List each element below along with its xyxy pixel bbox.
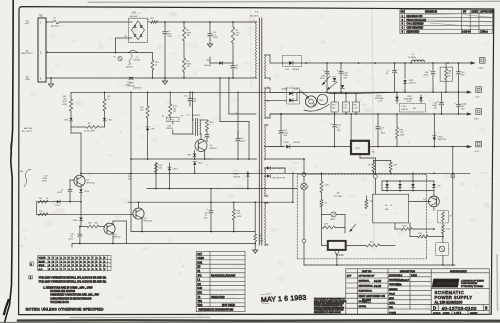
scan band bottom [18,319,500,322]
diode CR12 [57,200,60,203]
terminal -12V [467,145,472,148]
svg-text:A-C: A-C [39,268,43,271]
resistor R22 [321,192,323,199]
ground at TB1 [50,78,52,84]
terminal +12V [467,91,472,94]
svg-text:1W: 1W [187,66,190,68]
svg-text:20-301A: 20-301A [408,56,416,59]
capacitor C1 [164,22,166,31]
svg-text:+40V: +40V [478,68,484,70]
wire drive node A [219,78,221,122]
svg-text:C4-1 REVISED: C4-1 REVISED [407,23,424,26]
svg-text:VOLTAGE IS DC: VOLTAGE IS DC [50,301,69,304]
vertical x304 node [303,159,305,173]
svg-text:MATERIAL: MATERIAL [359,280,371,283]
svg-text:FOR 240V OPERATION INSTALL: FOR 240V OPERATION INSTALL JP1 ACROSS E5… [39,277,107,280]
svg-text:1N4934: 1N4934 [293,142,301,144]
svg-text:CR2: CR2 [206,60,211,62]
node wire 201.7 [37,201,82,203]
svg-text:5W: 5W [448,76,451,78]
svg-text:SHEET: SHEET [470,313,478,315]
reference designations table [196,251,245,311]
zener CR12 [333,78,336,81]
capacitor C14B [458,63,460,71]
wire Q6 collector top [433,195,435,198]
svg-text:VR2: VR2 [197,304,202,307]
diode CR14 [247,172,249,174]
rail 188.6 [147,188,297,190]
resistor R31 [373,161,375,163]
bottom rail 265 [304,264,455,266]
diode CR8 [194,151,196,153]
connector TB1 [38,18,46,82]
svg-text:CR26: CR26 [197,257,204,260]
capacitor C14A [457,103,461,105]
svg-text:D: D [433,306,436,311]
svg-text:REFERENCE DESIGNATIONS: REFERENCE DESIGNATIONS [199,309,234,312]
radio shack logo [432,279,484,288]
svg-text:6-1-83: 6-1-83 [374,285,382,288]
T1 primary winding [255,22,258,78]
svg-text:+160V: +160V [128,83,135,85]
capacitor C17 [377,114,379,126]
terminal E5 [374,175,378,179]
capacitor C3 [209,22,211,33]
svg-text:VOLTS: VOLTS [39,258,47,260]
svg-text:AND THE: AND THE [24,127,33,130]
svg-text:R5A WAS 470: R5A WAS 470 [407,15,423,18]
capacitor C5A [326,63,328,71]
svg-text:2W: 2W [236,35,239,37]
diode CR16 [286,145,290,149]
svg-text:NOT USED: NOT USED [222,304,235,307]
svg-text:C2: C2 [327,74,329,76]
svg-text:CR12: CR12 [55,205,61,207]
svg-text:TB1: TB1 [197,300,202,303]
svg-text:1 OF 1: 1 OF 1 [454,312,462,315]
svg-text:NO: NO [401,11,405,14]
svg-text:FOR 120V OPERATION INSTALL: FOR 120V OPERATION INSTALL JP1 ACROSS E5… [39,280,107,283]
svg-text:1W: 1W [187,35,190,37]
svg-text:2N6594: 2N6594 [210,148,218,150]
svg-text:JP2-5: JP2-5 [39,265,45,267]
sense squiggle left [24,170,31,188]
svg-text:(2000V): (2000V) [134,59,141,61]
capacitor C5C [432,63,434,71]
terminal E7 [335,250,339,254]
note 2 text [30,277,107,284]
terminal RET [467,112,472,115]
revision table [400,9,493,33]
svg-text:600V: 600V [69,239,74,241]
svg-text:CR5B: CR5B [293,89,299,91]
resistor R34 [321,215,323,228]
svg-text:1. RESISTORS ARE IN OHMS: 1. RESISTORS ARE IN OHMS , ±5% , 1/4W [43,286,93,289]
svg-text:AC: AC [26,20,29,23]
svg-text:CORPORATION: CORPORATION [461,282,478,285]
fuse F1 [46,21,53,23]
diode CR26 [265,175,268,177]
dashed select box [399,103,425,112]
transistor Q1 [74,175,85,186]
capacitor C10 [79,227,81,234]
svg-text:R9,R10,R21,R29,R36: R9,R10,R21,R29,R36 [211,274,236,277]
svg-text:CR17: CR17 [198,163,204,165]
resistor R5A boxed [440,67,452,81]
resistor R39 [442,223,444,225]
T1 tap wires [265,54,271,56]
svg-text:1W: 1W [173,111,176,113]
zener CR27 [419,97,422,100]
svg-text:6.8K: 6.8K [324,223,329,225]
svg-text:RT-1400: RT-1400 [334,196,343,198]
svg-text:DESIGN: DESIGN [389,289,398,291]
svg-text:1.4V: 1.4V [378,101,383,103]
capacitor C16 [440,101,444,103]
capacitor C9 [69,180,71,189]
transistor Q4 [104,223,115,234]
vertical bus x131 [130,92,132,231]
terminal E8 [302,239,306,243]
svg-text:CR10: CR10 [84,191,90,193]
svg-text:1W: 1W [128,179,131,181]
svg-text:40-13703-0100: 40-13703-0100 [442,306,477,311]
mounting arrows [322,76,330,85]
svg-text:6A 125V: 6A 125V [51,25,59,28]
resistor R14 [206,120,209,131]
svg-text:C10: C10 [184,96,187,98]
svg-text:PROD RELEASE: PROD RELEASE [407,19,427,22]
svg-text:GND: GND [25,79,30,81]
regulator VR1 [305,96,316,107]
svg-text:2000VDC: 2000VDC [133,87,142,89]
svg-text:BY: BY [463,11,467,14]
vertical x292.9 [292,173,294,202]
capacitor C12 [210,202,212,210]
date stamp MAY 16 1983 [261,292,307,304]
diode row CR19 CR20 CR21 [382,180,434,182]
wire rail to T1 [158,21,257,23]
diode CR25 [265,167,268,169]
jumper JP1 [167,117,180,122]
ground R30 [253,249,258,251]
resistor R9 [38,213,48,216]
svg-text:MFG: MFG [389,298,394,300]
svg-text:(2000V): (2000V) [126,66,133,68]
svg-text:DESCRIPTION: DESCRIPTION [400,271,415,273]
svg-text:+12V: +12V [474,97,480,99]
vertical x452.8 [452,147,454,265]
rail 63 top secondary [302,62,471,64]
trimpot R35 ADJ [322,214,331,216]
diode CR13 [169,172,171,174]
scan edge left [5,0,14,323]
svg-text:PROJ: PROJ [389,293,395,295]
svg-text:100: 100 [461,75,464,77]
resistor R16 [155,163,157,174]
diode CR3 [70,111,72,117]
svg-text:250VDC: 250VDC [128,85,136,87]
rail 202.2 [128,201,293,203]
node wire 214.3 [36,202,38,215]
svg-text:CAPACITANCES IN MICROFARAD: CAPACITANCES IN MICROFARADS [50,297,92,300]
terminal E6 [451,174,455,178]
diode CR22 [433,181,435,184]
capacitor C5B [340,63,342,71]
resistor R6 [70,92,72,99]
svg-text:1N5248: 1N5248 [204,65,212,67]
svg-text:NEUT/HOT: NEUT/HOT [22,53,34,55]
resistor R7 [70,121,72,127]
svg-text:1/2W: 1/2W [237,216,242,218]
svg-text:APPROVED: APPROVED [480,11,494,14]
svg-text:C5A: C5A [425,71,430,74]
capacitor C8 [237,131,239,138]
svg-text:REISSUED: REISSUED [407,31,420,34]
rail 159 [131,158,257,160]
svg-text:CR5 REVISED: CR5 REVISED [407,27,424,30]
diode CR7 [147,118,149,126]
power resistor box R33 [373,194,409,223]
thermal switch S1 [129,50,138,52]
svg-text:C-R27: C-R27 [401,106,406,108]
svg-text:DS1: DS1 [197,261,202,264]
svg-text:52-2108: 52-2108 [362,299,371,302]
svg-text:CR15,CR23: CR15,CR23 [211,296,225,299]
svg-text:R.Mc: R.Mc [396,283,402,286]
svg-text:NEXT ASSY: NEXT ASSY [359,294,374,298]
note 1 text [43,286,99,304]
svg-text:C14A: C14A [461,103,466,106]
resistor R2 [183,41,185,58]
wire Q6 base [409,200,431,202]
wire pin1 to bridge [59,21,129,23]
svg-text:1.4V: 1.4V [407,101,412,103]
svg-text:10: 10 [155,65,157,67]
boxed labels R13 C14 R15 [334,93,336,102]
svg-text:HOT: HOT [25,23,30,25]
heatsink assembly dashed box [297,174,427,259]
svg-text:C17: C17 [197,253,202,256]
svg-text:SEL: SEL [20,171,24,173]
svg-text:43.2K 1/2W: 43.2K 1/2W [84,131,95,133]
svg-text:1/4W: 1/4W [259,240,264,242]
terminal E1 [118,57,122,61]
zener CR13A [341,85,344,88]
terminal E4 [302,173,306,177]
resistor R10 [152,53,154,60]
svg-text:AC: AC [26,50,29,53]
svg-text:BD- -CNOT: BD- -CNOT [22,131,33,133]
diode CR10 [80,186,82,189]
svg-text:1/2W: 1/2W [400,135,405,137]
lamp DS1 [303,176,305,183]
resistor R11 [147,92,149,106]
svg-text:F 1055: F 1055 [389,312,397,314]
svg-text:J.West: J.West [480,31,488,34]
title block [346,269,489,315]
svg-text:6.8K: 6.8K [402,226,407,228]
svg-text:MECHANICAL: MECHANICAL [359,285,374,288]
diode CR24 [433,114,435,135]
rail 114 [270,113,330,115]
transistor Q6 [429,196,440,207]
svg-text:CR15: CR15 [73,220,79,222]
svg-text:UNMARKED CAPACITORS ARE .02: UNMARKED CAPACITORS ARE .022 , 50V [50,294,99,297]
svg-text:QTY: QTY [347,275,352,277]
capacitor C6 [129,76,133,78]
svg-text:TB1: TB1 [39,15,44,18]
resistor R32 [390,161,392,163]
rail 147 [270,146,285,148]
T1 secondary windings [264,55,267,78]
svg-text:2.2K: 2.2K [325,185,330,187]
svg-text:FT WORTH, TX 76102: FT WORTH, TX 76102 [461,286,484,288]
wire rail 243.5 [72,243,255,245]
svg-text:100: 100 [343,108,346,110]
svg-text:1N5231B: 1N5231B [438,139,447,141]
wire R31 R32 tops [374,160,391,162]
regulator TL430 [328,241,346,250]
bridge rectifier CR1 [129,18,148,42]
disclaimer fine print [314,298,347,314]
svg-text:CR26 SH3777B: CR26 SH3777B [272,178,286,180]
svg-text:T.Hoffman jr: T.Hoffman jr [396,279,409,282]
svg-text:DATE: DATE [472,11,479,14]
rail 92 [71,91,302,93]
svg-text:NOTES: UNLESS OTHERWISE SPECIF: NOTES: UNLESS OTHERWISE SPECIFIED [26,307,104,311]
svg-text:E6: E6 [181,116,183,118]
svg-text:QUAL: QUAL [389,302,396,305]
svg-text:CR16: CR16 [284,142,290,144]
svg-text:DIODES ARE 1N4448: DIODES ARE 1N4448 [50,290,75,293]
inductor L1 [412,60,425,62]
svg-text:C-ADJ-1: C-ADJ-1 [401,108,408,111]
diode CR17 [194,166,196,173]
svg-text:2-23-84: 2-23-84 [462,31,471,34]
svg-text:240: 240 [332,108,335,110]
svg-text:1N4934: 1N4934 [233,176,241,178]
capacitor C10A [189,92,191,98]
diode CR11 [404,63,406,79]
svg-text:CR14: CR14 [233,174,239,176]
capacitor C15 [334,114,336,124]
resistor R5 [104,92,106,99]
svg-text:CR13: CR13 [173,169,179,171]
resistor R38 dashed box [438,210,449,223]
wire rail to CR row [412,173,414,181]
regulator module U1 [351,141,369,154]
svg-text:MPS-U01: MPS-U01 [144,221,154,223]
transistor Q3 [195,140,207,152]
svg-text:E5: E5 [162,116,164,118]
svg-text:A DIVISION OF TANDY: A DIVISION OF TANDY [461,280,485,283]
svg-text:MODEL: MODEL [359,306,368,308]
svg-text:600V: 600V [42,181,47,183]
resistor R1 [183,22,185,27]
svg-text:C5A: C5A [321,75,326,78]
svg-text:APPROVED BY: APPROVED BY [359,275,375,278]
transistor Q5 [133,208,144,219]
diode CR21 [396,92,398,97]
svg-text:RET: RET [474,119,479,121]
svg-text:C14: C14 [343,105,346,107]
svg-text:TIC: TIC [372,152,376,154]
resistor R23 330 [365,196,367,200]
wire pin3 [46,52,153,54]
diode CR2 [232,43,234,63]
resistor R30 [254,234,257,242]
svg-text:E1: E1 [114,57,116,59]
svg-text:7805: 7805 [319,100,325,102]
svg-text:DATE: DATE [411,274,417,277]
right edge smudge [496,255,499,310]
capacitor C12 [280,114,282,130]
svg-text:APPROVALS: APPROVALS [389,274,403,277]
svg-text:4A 200V: 4A 200V [130,15,138,18]
svg-text:CR5A: CR5A [281,88,287,91]
svg-text:1.8K: 1.8K [393,165,398,167]
svg-text:5.6K: 5.6K [418,233,423,235]
svg-text:2N6594: 2N6594 [114,237,122,239]
svg-text:.0047: .0047 [241,141,247,143]
diode CR5 dashed [283,55,302,66]
wire drive node B [228,78,230,114]
svg-text:820: 820 [413,108,416,110]
terminal E10 +40V [471,61,476,64]
notes jumper table [30,256,111,271]
wire pin6 rail [46,77,257,79]
scan edge top [88,1,500,2]
svg-text:1N4934: 1N4934 [409,83,417,85]
svg-text:R13: R13 [332,105,335,107]
svg-text:-ADJ-: -ADJ- [330,218,335,221]
svg-text:SPECIFICATION: SPECIFICATION [450,270,467,273]
svg-text:7912: 7912 [355,148,361,150]
svg-text:1N6304: 1N6304 [292,69,300,71]
svg-text:SCALE: SCALE [433,312,441,315]
svg-text:1/2W: 1/2W [62,104,67,106]
svg-text:USED ON: USED ON [373,294,385,298]
resistor R36 [366,244,380,247]
svg-text:R15: R15 [353,105,356,107]
diode CR15 [80,202,82,217]
resistor R8 [38,200,48,203]
rail 231.5 [131,231,255,233]
rail 173 [81,172,470,174]
svg-text:250V: 250V [168,36,173,38]
thermal breaker dashed [436,243,449,256]
svg-text:AL 125-2108/2106: AL 125-2108/2106 [435,300,463,304]
diode CR6 [172,122,174,124]
ground C1 [162,80,167,82]
svg-text:R40: R40 [197,287,202,290]
trim cap C19 [344,215,346,234]
capacitor C7 [394,63,396,70]
svg-text:CR1: CR1 [132,12,137,15]
resistor R21 [321,173,323,181]
svg-text:400V: 400V [213,37,218,39]
svg-text:AS-3005: AS-3005 [250,14,259,17]
resistor R3 [232,22,234,27]
resistor R12 [169,92,171,104]
svg-text:-12V: -12V [474,151,479,153]
wires to lower rail [70,127,72,133]
resistor R18 [233,202,235,209]
svg-text:E3-E5: E3-E5 [39,261,46,263]
thermistor RT1 [148,21,152,23]
resistor R19 [81,226,87,228]
